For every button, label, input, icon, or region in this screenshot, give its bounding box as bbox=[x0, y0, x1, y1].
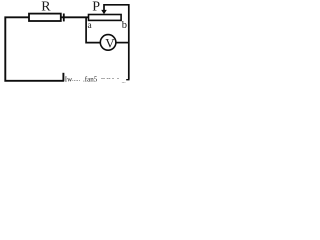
svg-text:.....: ..... bbox=[72, 76, 81, 83]
svg-text:.fan5: .fan5 bbox=[83, 75, 98, 83]
svg-text:R: R bbox=[41, 0, 51, 15]
svg-text:b: b bbox=[122, 20, 127, 31]
svg-text:V: V bbox=[105, 35, 115, 50]
svg-text:-- -- -: -- -- - bbox=[101, 76, 114, 82]
svg-text:...: ... bbox=[122, 79, 127, 85]
svg-text:P: P bbox=[92, 0, 100, 15]
svg-text:-: - bbox=[117, 76, 119, 82]
